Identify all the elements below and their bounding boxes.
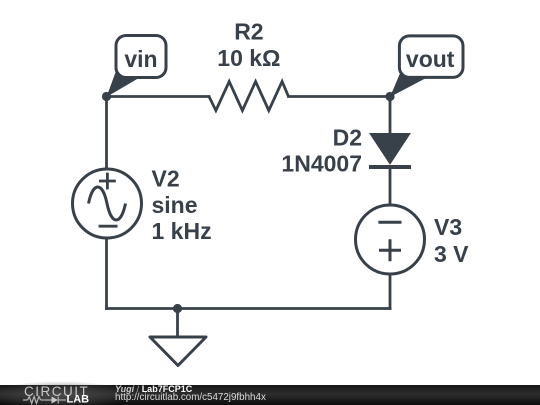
V2 plus sign [99,173,116,190]
wire left vertical lower [105,239,108,309]
wire top-left [107,95,210,98]
svg-text:1 kHz: 1 kHz [152,218,212,244]
voltage source V3 circle [356,205,425,274]
resistor R2 labels [217,18,280,71]
svg-text:LAB: LAB [67,394,90,405]
svg-text:vin: vin [124,46,157,72]
V3 plus sign [379,239,401,261]
V3 minus sign [378,221,401,224]
diode D2 triangle [370,134,410,165]
wire top-right [289,95,391,98]
wire bottom [107,307,391,310]
V3 labels [434,214,469,267]
vin flag box [116,36,166,78]
node vin dot [102,92,111,101]
svg-text:R2: R2 [234,18,263,44]
wire left vertical upper [105,97,108,170]
vout flag tail [390,71,428,97]
V2 sine wave [89,187,126,220]
vin flag tail [107,71,141,97]
node vout dot [385,92,394,101]
D2 labels [281,125,362,177]
junction ground dot [173,304,182,313]
V2 labels [152,166,212,244]
svg-text:3 V: 3 V [434,241,469,267]
wire right diode-to-source [389,168,392,205]
svg-text:10 kΩ: 10 kΩ [217,45,280,71]
logo circuit glyph [23,397,66,404]
svg-text:sine: sine [152,192,198,218]
svg-text:V3: V3 [434,214,462,240]
wire ground stub [176,309,179,338]
svg-text:V2: V2 [152,166,180,192]
wire right source-to-bottom [389,275,392,309]
logo diode glyph [52,397,59,404]
svg-text:http://circuitlab.com/c5472j9f: http://circuitlab.com/c5472j9fbhh4x [115,392,266,403]
resistor R2 [209,82,289,111]
wire right vertical upper [389,97,392,135]
svg-text:vout: vout [406,46,455,72]
ground symbol [150,337,206,366]
vout flag box [399,36,463,78]
diode D2 cathode bar [369,165,411,169]
svg-text:D2: D2 [333,125,362,151]
svg-text:1N4007: 1N4007 [281,151,362,177]
voltage source V2 circle [73,169,142,238]
V2 minus sign [99,225,118,228]
